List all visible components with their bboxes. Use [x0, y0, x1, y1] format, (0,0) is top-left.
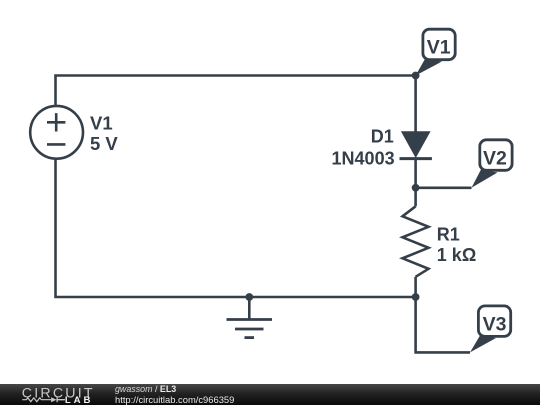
diode D1	[400, 131, 432, 158]
wire bottom/left net: source bottom down and along bottom to resistor bottom	[56, 160, 416, 297]
net flag V3	[470, 306, 511, 353]
node junction diode-resistor (V2 net)	[412, 184, 420, 192]
svg-text:V2: V2	[483, 148, 507, 170]
wire bottom node to V3 flag	[416, 297, 470, 352]
net flag V1	[416, 29, 456, 75]
voltage source V1	[30, 106, 83, 159]
label V1 5 V	[90, 113, 118, 154]
node junction bottom (V3 net)	[412, 293, 420, 301]
svg-text:D1: D1	[371, 126, 394, 146]
wire node to resistor top	[414, 188, 417, 207]
wire node to V2 flag	[416, 187, 472, 190]
svg-text:1 kΩ: 1 kΩ	[437, 245, 476, 265]
node junction ground	[245, 293, 253, 301]
label D1 1N4003	[332, 126, 395, 168]
wire resistor bottom to bottom net	[414, 277, 417, 297]
svg-text:V1: V1	[427, 37, 451, 59]
wire diode bottom to node	[414, 159, 417, 188]
footer credit text	[115, 384, 176, 394]
label R1 1 kOhm	[437, 224, 476, 265]
CircuitLab logo	[0, 384, 100, 405]
footer watermark bar	[0, 384, 540, 405]
ground	[227, 297, 273, 338]
wire top net V1: source top to diode column	[56, 76, 416, 105]
net flag V2	[472, 140, 513, 188]
svg-text:V3: V3	[483, 314, 507, 336]
svg-text:R1: R1	[437, 224, 460, 244]
svg-text:V1: V1	[90, 113, 113, 134]
wire diode top	[414, 76, 417, 133]
node junction top (V1 net)	[412, 72, 420, 80]
svg-text:LAB: LAB	[65, 395, 93, 405]
footer url text	[115, 395, 234, 405]
svg-text:1N4003: 1N4003	[332, 148, 395, 168]
svg-text:5 V: 5 V	[90, 133, 118, 154]
resistor R1	[403, 206, 429, 276]
